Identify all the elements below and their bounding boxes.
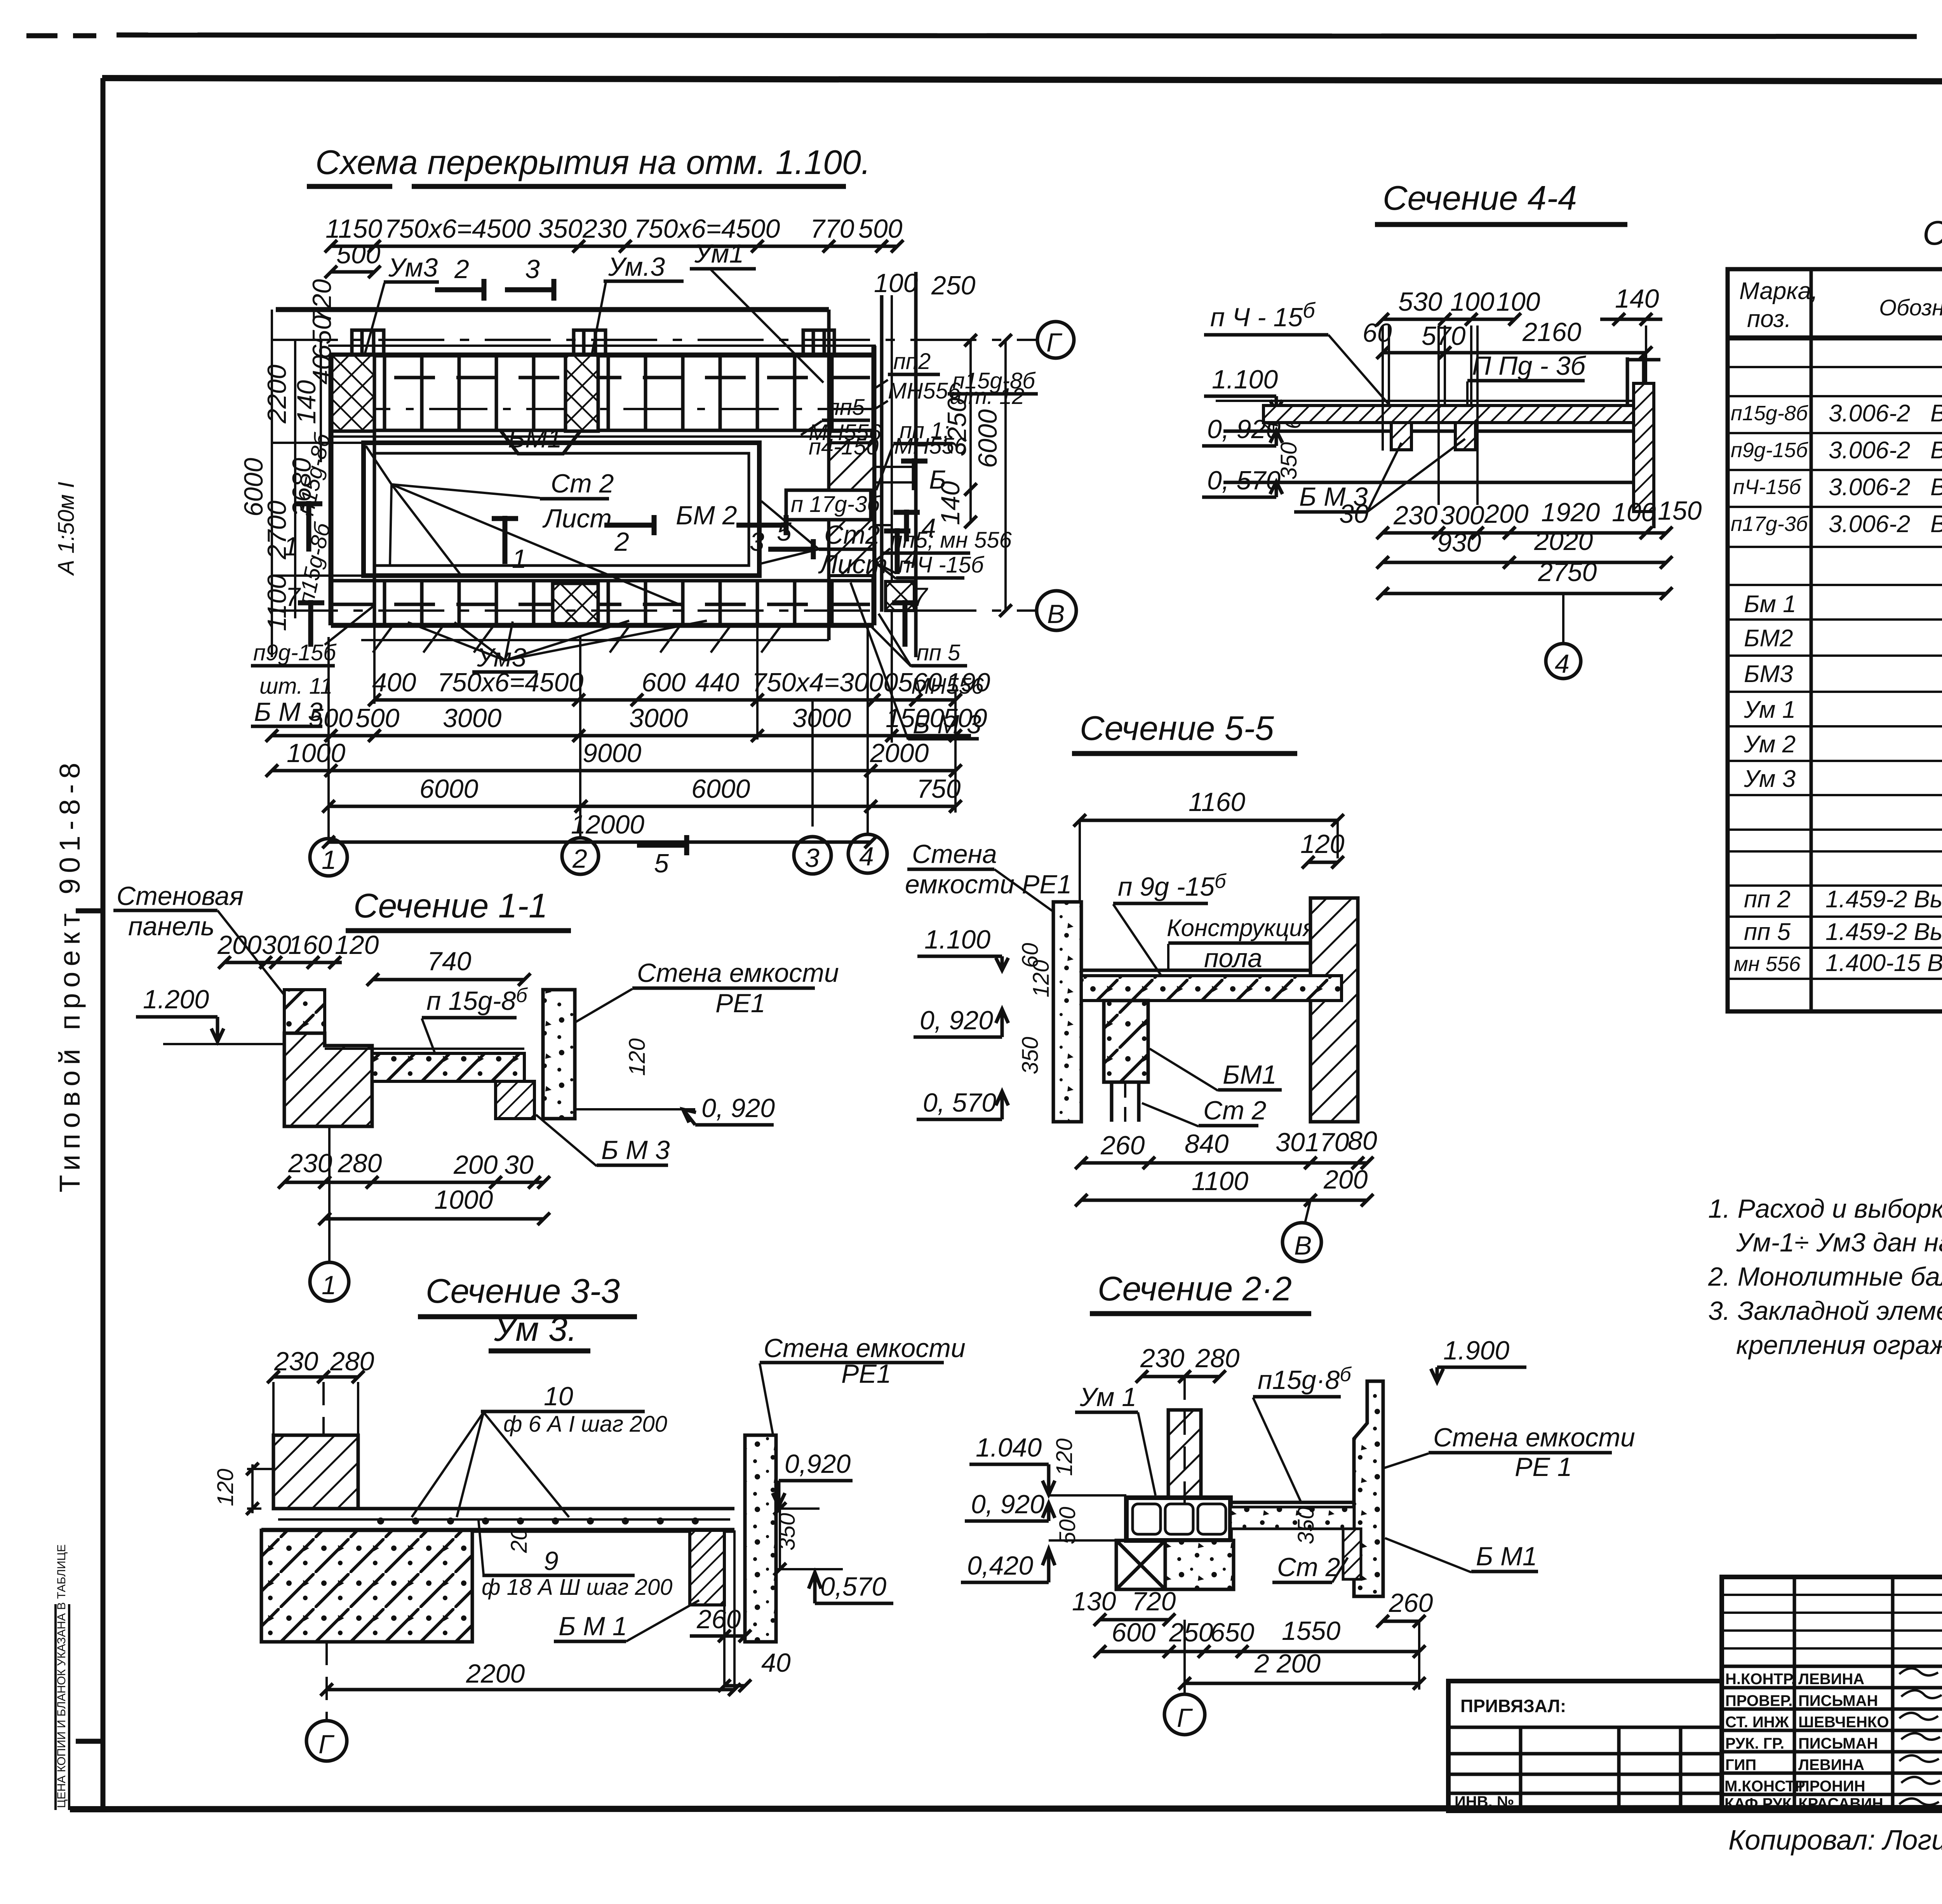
main titleblock outer	[1722, 1577, 1942, 1811]
svg-text:2: 2	[572, 844, 587, 874]
svg-text:Н.КОНТР.: Н.КОНТР.	[1725, 1671, 1796, 1688]
svg-text:4: 4	[859, 842, 874, 871]
svg-text:ПРОНИН: ПРОНИН	[1798, 1778, 1865, 1795]
grid extension verticals	[329, 612, 955, 838]
svg-text:Ум 2: Ум 2	[1744, 731, 1796, 758]
svg-text:В: В	[1047, 599, 1065, 629]
svg-text:ф 6 А I шаг 200: ф 6 А I шаг 200	[503, 1411, 667, 1437]
foundation under beam: X block + stipple	[1116, 1540, 1165, 1589]
svg-text:3. Закладной элемент МН 556: 3. Закладной элемент МН 556 заделывается…	[1708, 1296, 1942, 1326]
svg-text:1920: 1920	[1541, 498, 1600, 527]
svg-text:7: 7	[285, 582, 301, 612]
drop beam BM3	[496, 1081, 534, 1119]
slab bottom edges	[331, 429, 874, 432]
right rail verticals	[880, 295, 884, 612]
svg-text:Лист: Лист	[542, 504, 612, 533]
svg-text:200: 200	[1323, 1165, 1368, 1194]
svg-text:ПРОВЕР.: ПРОВЕР.	[1725, 1692, 1792, 1709]
svg-text:570: 570	[1422, 321, 1466, 351]
svg-text:440: 440	[695, 668, 740, 697]
svg-text:1: 1	[322, 845, 336, 875]
svg-text:пп 5: пп 5	[917, 640, 961, 665]
svg-text:ШЕВЧЕНКО: ШЕВЧЕНКО	[1798, 1714, 1889, 1731]
signature top small rows	[1722, 1595, 1942, 1648]
svg-text:230: 230	[1393, 501, 1438, 530]
svg-text:БМ3: БМ3	[1744, 661, 1793, 687]
svg-text:п17g-3б: п17g-3б	[1731, 512, 1808, 536]
svg-text:БМ 2: БМ 2	[676, 501, 737, 530]
top dimension line	[331, 245, 897, 248]
left dim verticals	[271, 310, 273, 657]
bottom right pier	[886, 581, 914, 611]
section mark 4 right outside	[904, 510, 909, 541]
svg-text:Сечение 4-4: Сечение 4-4	[1383, 179, 1577, 217]
svg-text:Б М 1: Б М 1	[559, 1612, 627, 1641]
svg-text:пп 5: пп 5	[1744, 919, 1791, 945]
svg-text:1.200: 1.200	[143, 985, 209, 1014]
svg-text:300: 300	[1440, 501, 1484, 530]
svg-text:МН556: МН556	[894, 433, 967, 459]
svg-text:п Ч -15б: п Ч -15б	[898, 552, 985, 578]
svg-text:п15g-8б: п15g-8б	[1731, 402, 1808, 425]
upper wall hatched	[273, 1435, 358, 1509]
svg-text:3000: 3000	[629, 703, 688, 733]
riser to circle	[1183, 1690, 1186, 1694]
grid circle V	[1037, 591, 1076, 630]
post St2 below	[1110, 1082, 1114, 1122]
svg-text:6000: 6000	[973, 409, 1002, 468]
svg-text:3000: 3000	[443, 703, 501, 733]
left wall verticals	[329, 355, 334, 625]
svg-text:1550: 1550	[1282, 1616, 1340, 1646]
svg-text:п4-150: п4-150	[809, 434, 879, 459]
svg-text:0, 570: 0, 570	[1207, 466, 1281, 495]
svg-text:120: 120	[1300, 829, 1345, 859]
svg-text:160: 160	[288, 930, 332, 960]
svg-text:Ст 2: Ст 2	[1203, 1096, 1266, 1125]
svg-text:140: 140	[1615, 284, 1659, 313]
left beams BM3 hatched	[1391, 423, 1411, 450]
svg-text:пп5: пп5	[827, 395, 865, 420]
svg-text:крепления ограждения.: крепления ограждения.	[1736, 1330, 1942, 1360]
svg-text:250: 250	[1169, 1618, 1213, 1647]
grid axis G dash-dot	[272, 339, 1036, 341]
svg-text:200: 200	[1484, 499, 1529, 529]
svg-text:Конструкция: Конструкция	[1167, 915, 1316, 942]
left pier cross-hatched	[331, 355, 374, 431]
svg-text:930: 930	[1437, 528, 1481, 557]
svg-text:Б М1: Б М1	[1476, 1542, 1537, 1571]
lower-left tiny vertical text column	[54, 1604, 57, 1810]
pier top posts	[352, 330, 834, 355]
svg-text:1. Расход и выборка арматур: 1. Расход и выборка арматуры на монолитн…	[1708, 1194, 1942, 1224]
svg-text:20: 20	[506, 1528, 532, 1553]
svg-text:650: 650	[307, 315, 337, 359]
svg-text:Ум3: Ум3	[388, 253, 438, 282]
central pier hatched	[1168, 1410, 1201, 1498]
svg-text:3.006-2 Вып. П-2: 3.006-2 Вып. П-2	[1829, 511, 1942, 538]
svg-text:4: 4	[1555, 649, 1570, 679]
svg-text:1000: 1000	[287, 738, 345, 768]
svg-text:Ум 1: Ум 1	[1744, 696, 1796, 723]
privyazal rows	[1448, 1727, 1722, 1811]
svg-text:п15g·8б: п15g·8б	[1258, 1363, 1352, 1395]
svg-text:6000: 6000	[691, 774, 750, 804]
floor line	[1081, 969, 1310, 972]
svg-text:3: 3	[525, 254, 540, 284]
svg-text:230: 230	[288, 1149, 332, 1178]
svg-text:Ст 2: Ст 2	[1277, 1552, 1340, 1582]
svg-text:9000: 9000	[583, 738, 641, 768]
svg-text:Типовой проект 901-8-8: Типовой проект 901-8-8	[54, 757, 86, 1192]
svg-text:Стена емкости: Стена емкости	[637, 958, 839, 988]
slab top edge	[331, 353, 874, 358]
leader Um3 to pier	[354, 283, 385, 392]
right wall hatched	[1634, 383, 1654, 512]
svg-text:Марка,: Марка,	[1739, 278, 1818, 305]
svg-text:Ст2: Ст2	[824, 520, 880, 550]
circle V above title	[1282, 1223, 1321, 1262]
svg-text:2750: 2750	[1538, 557, 1597, 587]
level lines	[1223, 430, 1635, 433]
svg-text:840: 840	[1185, 1129, 1229, 1159]
circle 4 bottom	[1562, 593, 1564, 644]
svg-text:Г: Г	[1046, 328, 1063, 357]
svg-text:2160: 2160	[1522, 317, 1581, 347]
upper wall line	[276, 307, 829, 312]
svg-text:Стена емкости: Стена емкости	[1433, 1423, 1635, 1452]
svg-text:Стена: Стена	[912, 839, 997, 869]
svg-text:ПРИВЯЗАЛ:: ПРИВЯЗАЛ:	[1460, 1696, 1566, 1716]
svg-text:Г: Г	[318, 1730, 335, 1759]
svg-text:750: 750	[917, 774, 961, 804]
svg-text:0, 920: 0, 920	[920, 1006, 993, 1035]
svg-text:500: 500	[336, 240, 381, 269]
svg-text:1: 1	[284, 532, 298, 561]
grid circle 3	[794, 837, 831, 874]
svg-text:2: 2	[454, 254, 469, 284]
svg-text:400: 400	[372, 668, 416, 697]
left big hatched mass	[284, 1033, 372, 1126]
svg-text:Б М 3: Б М 3	[601, 1135, 670, 1165]
svg-text:260: 260	[1100, 1131, 1145, 1160]
slab right of beam	[1230, 1501, 1354, 1504]
bottom band joists	[385, 582, 832, 624]
svg-text:Сечение 5-5: Сечение 5-5	[1080, 709, 1274, 747]
right wall with top notch	[1354, 1381, 1383, 1596]
left ext rungs	[272, 442, 365, 444]
svg-text:п 9g -15б: п 9g -15б	[1118, 870, 1227, 902]
tank outer rect	[364, 443, 759, 576]
svg-text:350: 350	[1018, 1037, 1043, 1074]
beam with stirrups	[1126, 1498, 1230, 1540]
svg-text:п9g-15б: п9g-15б	[1731, 439, 1808, 462]
frame top border	[102, 78, 1942, 82]
svg-text:0,920: 0,920	[785, 1449, 851, 1479]
svg-text:ПИСЬМАН: ПИСЬМАН	[1798, 1692, 1878, 1709]
svg-text:1.900: 1.900	[1443, 1336, 1509, 1365]
svg-text:Бм 1: Бм 1	[1744, 591, 1796, 618]
svg-text:п Ч - 15б: п Ч - 15б	[1210, 298, 1316, 332]
bottom small pier	[553, 583, 598, 624]
circle 1	[310, 1262, 349, 1301]
svg-text:2 200: 2 200	[1254, 1649, 1321, 1678]
rail rungs right	[874, 466, 916, 468]
svg-text:0,420: 0,420	[967, 1551, 1033, 1580]
tall extension lines	[1383, 325, 1646, 505]
svg-text:60: 60	[1363, 318, 1392, 348]
axis line down to circle	[328, 1126, 331, 1262]
svg-text:0,570: 0,570	[820, 1572, 886, 1601]
svg-text:170: 170	[1305, 1128, 1349, 1157]
column lines	[1811, 269, 1942, 1011]
signature name rows	[1722, 1666, 1942, 1794]
svg-text:1: 1	[322, 1270, 336, 1300]
svg-text:100: 100	[874, 268, 918, 298]
svg-text:ф 18 А Ш шаг 200: ф 18 А Ш шаг 200	[482, 1575, 672, 1600]
grid circle G	[1037, 322, 1074, 358]
svg-text:120: 120	[213, 1469, 238, 1506]
svg-text:120: 120	[1052, 1438, 1077, 1476]
svg-text:770: 770	[810, 214, 854, 244]
svg-text:80: 80	[1348, 1126, 1377, 1156]
svg-text:1.459-2 Вып. 2: 1.459-2 Вып. 2	[1825, 886, 1942, 913]
bottom band dashed	[332, 603, 873, 606]
svg-text:М.КОНСТР: М.КОНСТР	[1724, 1778, 1805, 1795]
svg-text:ЦЕНА КОПИЙ И БЛАНОК УКАЗАНА В: ЦЕНА КОПИЙ И БЛАНОК УКАЗАНА В ТАБЛИЦЕ	[55, 1544, 68, 1808]
top dim ticks	[325, 240, 903, 252]
inside fan left	[366, 446, 683, 606]
rebar dots	[377, 1518, 699, 1525]
svg-text:2200: 2200	[466, 1659, 525, 1688]
svg-text:720: 720	[1132, 1587, 1176, 1616]
svg-text:140: 140	[292, 380, 321, 424]
svg-text:Г: Г	[1177, 1703, 1193, 1733]
svg-text:ЛЕВИНА: ЛЕВИНА	[1798, 1756, 1864, 1773]
ext verticals and axis	[272, 1382, 275, 1435]
svg-text:500: 500	[1055, 1507, 1080, 1544]
svg-text:120: 120	[625, 1038, 650, 1076]
middle pier cross-hatched	[566, 355, 598, 431]
top band dashed line	[332, 376, 873, 379]
svg-text:Ум-1÷ Ум3 дан на листе 38.: Ум-1÷ Ум3 дан на листе 38.	[1736, 1228, 1942, 1257]
svg-text:пп2: пп2	[893, 349, 931, 374]
svg-text:120: 120	[1028, 960, 1054, 997]
section mark 1 left	[306, 501, 311, 552]
svg-text:350: 350	[538, 214, 583, 244]
svg-text:750х4=3000: 750х4=3000	[752, 668, 898, 697]
svg-text:100: 100	[1496, 287, 1540, 317]
section mark 7 left	[308, 600, 313, 647]
svg-text:750х6=4500: 750х6=4500	[385, 214, 531, 244]
svg-text:280: 280	[330, 1347, 374, 1376]
svg-text:поз.: поз.	[1747, 306, 1791, 332]
top band dash-dot line	[332, 408, 873, 410]
svg-text:Ум.3: Ум.3	[608, 252, 665, 282]
svg-text:230: 230	[1140, 1344, 1185, 1373]
svg-text:Стеновая: Стеновая	[117, 881, 244, 911]
svg-text:РЕ1: РЕ1	[715, 989, 766, 1018]
svg-text:СТ. ИНЖ: СТ. ИНЖ	[1725, 1714, 1789, 1731]
svg-text:120: 120	[335, 930, 379, 960]
svg-text:В: В	[1294, 1231, 1312, 1260]
svg-text:Стена емкости: Стена емкости	[764, 1333, 966, 1363]
svg-text:п 17g-3б: п 17g-3б	[791, 492, 881, 517]
right body edge	[872, 346, 877, 625]
frame left border	[101, 78, 106, 1810]
svg-text:ГИП: ГИП	[1725, 1756, 1756, 1773]
svg-text:280: 280	[338, 1149, 382, 1178]
circle G	[306, 1721, 347, 1761]
svg-text:Схема перекрытия на отм. 1: Схема перекрытия на отм. 1.100.	[315, 143, 870, 181]
svg-text:500: 500	[355, 703, 400, 733]
svg-text:0, 920: 0, 920	[971, 1490, 1044, 1519]
bottom band bottom edge	[331, 623, 874, 628]
svg-text:0, 570: 0, 570	[923, 1088, 996, 1117]
column BM1 hatched	[1104, 1001, 1148, 1082]
header bottom line	[1728, 336, 1942, 341]
thin drop strip right	[1343, 1529, 1361, 1579]
svg-text:3.006-2 Вып.П-2: 3.006-2 Вып.П-2	[1829, 437, 1942, 464]
grid circle 1	[310, 839, 347, 876]
svg-text:2000: 2000	[870, 738, 929, 768]
svg-text:280: 280	[1195, 1344, 1240, 1373]
svg-text:Сечение 2·2: Сечение 2·2	[1098, 1269, 1292, 1308]
svg-text:емкости РЕ1: емкости РЕ1	[905, 870, 1072, 899]
bottom band top edge	[331, 579, 874, 583]
svg-text:100: 100	[1450, 287, 1495, 317]
svg-text:600: 600	[1112, 1618, 1156, 1647]
svg-text:КРАСАВИН: КРАСАВИН	[1798, 1795, 1883, 1812]
svg-text:560: 560	[898, 668, 942, 697]
slab hatched	[1263, 406, 1636, 423]
drop beam BM1	[690, 1530, 724, 1605]
thin slab edge line	[328, 345, 876, 347]
top cut line	[117, 35, 1917, 37]
slab lines	[273, 1507, 734, 1511]
svg-text:6000: 6000	[419, 774, 478, 804]
right rail	[1642, 357, 1646, 383]
grid axis V dash-dot	[272, 609, 1036, 612]
svg-text:500: 500	[858, 214, 903, 244]
svg-text:1100: 1100	[1192, 1166, 1248, 1196]
svg-text:3: 3	[750, 527, 764, 557]
svg-text:пп 2: пп 2	[1744, 886, 1791, 913]
svg-text:250: 250	[931, 271, 976, 300]
svg-text:панель: панель	[128, 912, 214, 941]
svg-text:350: 350	[1276, 442, 1302, 480]
plan title underline	[307, 184, 392, 189]
svg-text:ЛЕВИНА: ЛЕВИНА	[1798, 1671, 1864, 1688]
svg-text:РУК. ГР.: РУК. ГР.	[1725, 1735, 1784, 1752]
svg-text:2020: 2020	[1534, 526, 1593, 556]
svg-text:Ум 1: Ум 1	[1079, 1382, 1136, 1412]
svg-text:150: 150	[1658, 496, 1702, 526]
svg-text:530: 530	[1398, 287, 1443, 317]
spec table outer	[1728, 269, 1942, 1011]
floor slab hatched	[372, 1053, 524, 1081]
svg-text:500: 500	[943, 703, 987, 733]
svg-text:Б: Б	[929, 465, 946, 494]
lower slab ledge line	[361, 639, 829, 641]
svg-text:2200: 2200	[262, 365, 292, 424]
svg-text:40: 40	[761, 1648, 791, 1678]
svg-text:3: 3	[805, 843, 820, 873]
tick marks on left border	[76, 908, 103, 914]
svg-text:260: 260	[1389, 1588, 1433, 1618]
grid circle 2	[562, 838, 599, 874]
foundation block	[261, 1530, 472, 1642]
svg-text:1.040: 1.040	[976, 1433, 1042, 1462]
svg-text:740: 740	[427, 947, 472, 976]
placeholder groups filled below	[239, 143, 1076, 878]
svg-text:30: 30	[504, 1150, 534, 1180]
svg-text:п 15g-8б: п 15g-8б	[426, 984, 528, 1016]
section mark 7 right	[903, 600, 908, 647]
svg-text:6000: 6000	[239, 458, 268, 517]
level line	[1049, 1494, 1126, 1497]
svg-text:200: 200	[217, 930, 262, 960]
svg-text:Сечение 3-3: Сечение 3-3	[426, 1272, 620, 1310]
svg-text:350: 350	[1293, 1507, 1319, 1544]
floor line	[1216, 400, 1643, 402]
floor slab concrete band	[1081, 976, 1342, 1001]
svg-text:БМ1: БМ1	[1223, 1060, 1277, 1089]
svg-text:Ст 2: Ст 2	[551, 469, 614, 498]
svg-text:Ум 3: Ум 3	[1744, 766, 1796, 792]
privyazal block outer	[1448, 1681, 1722, 1811]
beam P17g-3b	[786, 490, 871, 520]
svg-text:А 1:50м I: А 1:50м I	[54, 482, 79, 576]
svg-text:мн 556: мн 556	[1734, 952, 1801, 976]
section mark B right	[912, 458, 917, 490]
tank inner rect	[374, 453, 749, 566]
svg-text:шт. 11: шт. 11	[259, 674, 332, 699]
svg-text:РЕ 1: РЕ 1	[1515, 1452, 1572, 1482]
right wall stipple	[745, 1435, 776, 1642]
svg-text:650: 650	[1210, 1618, 1255, 1647]
row lines	[1728, 367, 1942, 979]
right wall stipple	[543, 990, 575, 1119]
section mark 4 inside	[895, 528, 900, 574]
svg-text:1: 1	[512, 544, 527, 574]
svg-text:ИНВ. №: ИНВ. №	[1455, 1793, 1514, 1810]
svg-text:2. Монолитные балки разработ: 2. Монолитные балки разработаны на листе…	[1708, 1262, 1942, 1291]
svg-text:130: 130	[1072, 1587, 1116, 1616]
riser to circle V	[1305, 1200, 1310, 1223]
svg-text:7: 7	[913, 582, 928, 612]
svg-text:1.100: 1.100	[1212, 365, 1278, 394]
svg-text:200: 200	[453, 1150, 498, 1180]
svg-text:230: 230	[582, 214, 627, 244]
svg-text:500: 500	[309, 703, 353, 733]
section mark 1 inside	[503, 516, 508, 564]
svg-text:12000: 12000	[571, 810, 644, 839]
top band joists	[385, 357, 832, 432]
svg-text:Обозначение: Обозначение	[1879, 295, 1942, 320]
svg-text:5: 5	[654, 849, 669, 878]
left wall stipple	[1053, 902, 1081, 1122]
svg-text:пп5; мн 556: пп5; мн 556	[890, 527, 1012, 553]
top cut line dashes	[26, 33, 57, 38]
svg-text:30: 30	[1276, 1128, 1305, 1157]
svg-text:3.006-2 Вып.П-2: 3.006-2 Вып.П-2	[1829, 474, 1942, 501]
svg-text:3000: 3000	[792, 703, 851, 733]
svg-text:0, 920: 0, 920	[701, 1093, 775, 1123]
signature column lines	[1794, 1577, 1942, 1811]
right wall hatched	[1310, 898, 1358, 1122]
svg-text:1.400-15 Вып. 1: 1.400-15 Вып. 1	[1825, 950, 1942, 976]
